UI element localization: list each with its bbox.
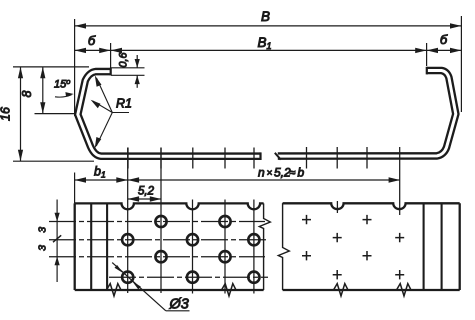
bottom edge — [283, 289, 460, 291]
bottom edge — [75, 289, 264, 291]
dim Ø3 leader through hole — [112, 263, 166, 311]
dim 0,6 thickness of sheet — [111, 67, 145, 69]
svg-text:8: 8 — [20, 90, 34, 97]
extension line lip end right (B1) — [426, 43, 428, 66]
col r4 centerline continuous (ext line of n x 5,2) — [399, 147, 401, 215]
hole row centerlines (dash-dot) — [49, 222, 268, 278]
svg-text:5,2: 5,2 — [138, 186, 155, 198]
profile outline right (section view) — [278, 71, 456, 157]
holes row1 cols 2,4 — [122, 216, 259, 283]
profile lip end cap right — [426, 67, 428, 75]
holes row4 cols 1,3,5 — [122, 272, 133, 283]
extension line bottom of profile (16) — [13, 160, 94, 162]
svg-text:≈: ≈ — [290, 167, 296, 179]
svg-text:n: n — [258, 166, 265, 180]
svg-text:5,2: 5,2 — [274, 166, 291, 180]
dim б left — [75, 49, 111, 51]
profile outline left (section view, thick double line via black+white stroke) — [78, 72, 261, 157]
holes row2 cols 1,3,5 — [122, 234, 133, 245]
svg-text:б: б — [440, 32, 448, 47]
profile lip end cap left — [110, 68, 112, 76]
dim B — [75, 25, 462, 27]
break edge right piece with zigzag — [278, 203, 289, 290]
dim n x 5,2 = b — [128, 179, 400, 181]
cross marks right piece — [302, 215, 404, 280]
dim 8 — [42, 67, 44, 114]
svg-text:Ø3: Ø3 — [169, 297, 189, 313]
profile flange break end cap left — [259, 152, 261, 160]
slash at middle row — [53, 235, 61, 242]
dim 3 / 3 rows — [56, 200, 58, 222]
plan view left piece outline — [75, 203, 264, 290]
extension line knee (8) — [35, 113, 75, 115]
break edge left piece with zigzag — [259, 203, 270, 290]
svg-text:В: В — [261, 9, 270, 24]
extension line top of profile (16 / 8) — [13, 66, 89, 68]
inner fold lines left piece — [90, 203, 92, 290]
extension line right outer (B / b right) — [460, 16, 462, 112]
dim 16 — [20, 67, 22, 161]
break marks (W) on bottom edge right piece — [334, 284, 349, 296]
holes row3 cols 2,4 — [155, 251, 166, 262]
section tick marks (hole column centerlines crossing flange) — [128, 147, 367, 169]
profile flange break bevel cap right — [275, 153, 281, 160]
top edge with notches at cols 1,3,5 — [75, 203, 264, 209]
break marks (W) on bottom edge left piece — [107, 284, 122, 296]
svg-text:b: b — [298, 166, 305, 180]
dim б right — [427, 49, 462, 51]
dim b1 — [75, 179, 128, 181]
svg-text:0,6: 0,6 — [118, 52, 130, 67]
dim 5,2 — [128, 198, 162, 200]
extension line left outer (B / b1) — [74, 19, 76, 116]
hole column centerlines plan (left piece) — [128, 147, 400, 294]
dim B1 — [111, 49, 427, 51]
plan view right piece outline — [283, 203, 460, 290]
top edge with notches at cols r2,r4 — [283, 203, 460, 209]
svg-text:3: 3 — [37, 245, 49, 251]
svg-text:16: 16 — [0, 107, 13, 121]
svg-text:R1: R1 — [116, 97, 132, 111]
svg-text:б: б — [88, 33, 96, 48]
svg-text:3: 3 — [37, 227, 49, 233]
extension line lip end left (B1) — [110, 43, 112, 73]
svg-text:×: × — [267, 168, 273, 179]
left edge — [74, 203, 76, 290]
inner fold lines right piece — [423, 203, 425, 290]
right edge — [459, 203, 461, 290]
